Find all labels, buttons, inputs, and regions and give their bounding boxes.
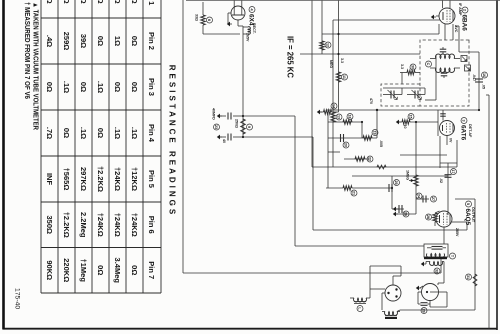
svg-text:0Ω: 0Ω — [62, 128, 71, 138]
wire screen grid — [452, 221, 467, 223]
svg-text:25: 25 — [394, 180, 398, 184]
wire B+ rail 3 vertical — [183, 272, 441, 274]
T3 secondary coil L3 — [430, 262, 443, 266]
pin leads of V2 to page edge — [449, 0, 451, 8]
coupling capacitor C8 — [445, 174, 452, 176]
wire B+ rail 1 to output transformer — [295, 245, 424, 247]
svg-text:259Ω: 259Ω — [62, 32, 71, 51]
ground for T3 secondary — [421, 262, 424, 267]
svg-text:†24KΩ: †24KΩ — [130, 213, 139, 237]
capacitor C11 with ground — [392, 208, 404, 210]
wire AF node line — [361, 122, 363, 138]
T2 resonating capacitor C3 — [441, 72, 448, 74]
resistor R17 in speaker feed — [473, 274, 477, 286]
svg-text:3.3: 3.3 — [340, 58, 344, 63]
svg-text:0Ω: 0Ω — [130, 265, 139, 275]
wire plate to output transformer — [443, 227, 445, 244]
svg-text:† MEASURED FROM PIN 7 OF V6: † MEASURED FROM PIN 7 OF V6 — [23, 2, 32, 99]
resistor R6 on return line — [331, 112, 335, 122]
wire stub below V3 — [439, 136, 441, 168]
svg-text:17: 17 — [451, 169, 455, 173]
svg-text:28: 28 — [426, 215, 430, 219]
svg-text:▲ TAKEN WITH VACUUM TUBE VOLTM: ▲ TAKEN WITH VACUUM TUBE VOLTMETER — [32, 2, 41, 131]
wire speaker feed line — [474, 199, 476, 310]
svg-text:10: 10 — [403, 125, 407, 129]
svg-text:22: 22 — [368, 157, 372, 161]
voice coil L4 — [385, 312, 398, 316]
T2 primary coil L1 — [435, 54, 454, 58]
output transformer T3 frame — [424, 244, 448, 257]
ref circle R2 — [247, 124, 253, 130]
wire audio coupling — [447, 163, 449, 215]
svg-text:40MFD: 40MFD — [212, 108, 216, 120]
wire V2 plate bypass — [458, 26, 460, 52]
wire volume line — [415, 122, 417, 214]
svg-text:.005: .005 — [379, 140, 383, 147]
capacitor C9 — [343, 134, 345, 142]
svg-text:9Ω: 9Ω — [62, 0, 71, 4]
ref circle R4 — [342, 74, 348, 80]
ref circle R5 — [325, 42, 331, 48]
wire secondary bottom to ground — [426, 261, 430, 263]
wire secondary to speaker — [438, 282, 444, 284]
resistor R4 AVC — [336, 72, 340, 82]
svg-text:6BA6: 6BA6 — [461, 15, 468, 32]
resistor R11 on vertical line — [352, 187, 392, 189]
wire can to AVC bus — [425, 99, 436, 101]
wire x176 vertical — [352, 175, 448, 177]
resistor R9 — [343, 120, 352, 124]
svg-text:0V: 0V — [449, 138, 453, 143]
L4 core bars — [385, 315, 397, 317]
T2 slug adjust second — [465, 65, 471, 71]
svg-text:RECT.: RECT. — [252, 23, 256, 34]
svg-text:IF AMP: IF AMP — [458, 3, 462, 16]
svg-text:0Ω: 0Ω — [45, 0, 54, 4]
svg-text:†565Ω: †565Ω — [62, 168, 71, 191]
svg-text:.4Ω: .4Ω — [45, 35, 54, 47]
svg-text:Pin 2: Pin 2 — [147, 32, 156, 50]
wire speaker feed drop — [455, 198, 475, 200]
wiper arrow of R13 — [409, 180, 413, 182]
wire stub — [328, 151, 340, 153]
svg-text:5: 5 — [466, 203, 470, 205]
svg-text:0Ω: 0Ω — [96, 128, 105, 138]
resistor R15 below IF can — [415, 72, 420, 74]
wire secondary top — [442, 261, 444, 263]
svg-text:†24KΩ: †24KΩ — [113, 167, 122, 191]
wire AVC bus into can — [459, 51, 479, 53]
svg-text:21: 21 — [352, 191, 356, 195]
svg-text:4: 4 — [250, 8, 254, 11]
svg-text:C: C — [426, 63, 430, 66]
L5 core bars — [354, 301, 366, 303]
svg-text:29: 29 — [422, 308, 426, 312]
diode load wire — [437, 122, 439, 136]
IF amplifier tube V2 6BA6 — [439, 8, 455, 24]
ground for C1A — [217, 114, 220, 119]
tube socket circle X1 — [385, 285, 401, 301]
svg-text:†2.2KΩ: †2.2KΩ — [96, 166, 105, 192]
filter capacitor C1A electrolytic — [233, 115, 243, 117]
svg-text:0Ω: 0Ω — [79, 82, 88, 92]
wire loop antenna along top — [488, 95, 490, 329]
trimmer capacitor C5 — [393, 91, 395, 99]
svg-text:6AQ5: 6AQ5 — [464, 209, 471, 226]
svg-text:0Ω: 0Ω — [79, 0, 88, 4]
output tube V5 6AQ5 — [436, 211, 452, 227]
ref circle R8 — [408, 114, 414, 120]
oscillator coil L5 — [354, 298, 367, 302]
junction dots — [242, 115, 244, 117]
coupling capacitor C10 — [391, 176, 393, 209]
svg-text:†1Meg: †1Meg — [79, 259, 88, 283]
wire X1 loop — [400, 266, 402, 276]
svg-text:0Ω: 0Ω — [130, 36, 139, 46]
ground for C11 — [393, 207, 396, 212]
svg-text:0Ω: 0Ω — [96, 0, 105, 4]
wire B+ rail 2 vertical — [243, 136, 313, 138]
svg-text:RESISTANCE READINGS: RESISTANCE READINGS — [168, 65, 177, 217]
svg-text:0Ω: 0Ω — [130, 82, 139, 92]
wire speaker feed to voice coil — [400, 309, 475, 311]
ref circle C12 — [431, 196, 437, 202]
ref circle L5 — [357, 306, 363, 312]
svg-text:Pin 6: Pin 6 — [147, 216, 156, 234]
wire detector line to AF network — [376, 110, 378, 138]
svg-text:.1Ω: .1Ω — [96, 81, 105, 93]
ref circle C14 — [421, 308, 427, 314]
svg-text:†24KΩ: †24KΩ — [113, 213, 122, 237]
svg-text:n 1: n 1 — [147, 0, 156, 5]
svg-text:.05: .05 — [482, 84, 486, 89]
ref circle R12 — [367, 156, 373, 162]
svg-text:3: 3 — [462, 119, 466, 121]
svg-text:32: 32 — [435, 269, 439, 273]
svg-text:0Ω: 0Ω — [113, 0, 122, 4]
svg-text:Pin 5: Pin 5 — [147, 170, 156, 188]
svg-text:†2.2KΩ: †2.2KΩ — [62, 212, 71, 238]
svg-text:1Ω: 1Ω — [113, 36, 122, 46]
T2 resonating capacitor C2 — [440, 48, 447, 50]
wire AVC line — [338, 0, 340, 112]
resistor R5 — [320, 41, 324, 50]
ref circle C6 — [482, 72, 488, 78]
volume control R13 potentiometer — [414, 175, 418, 186]
svg-text:33Ω: 33Ω — [195, 14, 199, 21]
svg-text:15: 15 — [409, 114, 413, 118]
trimmer can extension (dashed) — [381, 84, 420, 106]
filter resistor R2 — [241, 119, 245, 134]
T3 core laminations — [424, 257, 447, 259]
svg-text:175-40: 175-40 — [14, 288, 21, 309]
wire trimmer bus — [383, 87, 425, 89]
wire rail 3 to output transformer — [440, 258, 442, 273]
capacitor C14 at P1 — [418, 291, 422, 293]
svg-text:.02: .02 — [439, 178, 443, 183]
svg-text:39Ω: 39Ω — [79, 34, 88, 48]
wire volume to ground — [396, 213, 416, 215]
wire V2 plate to IF transformer — [452, 24, 454, 40]
wire AVC vertical — [300, 53, 420, 55]
svg-text:11: 11 — [342, 75, 346, 79]
svg-text:.1Ω: .1Ω — [130, 127, 139, 139]
ref circle R7 — [331, 103, 337, 109]
trimmer capacitor C4 — [417, 91, 419, 99]
ground cluster resistor R7 — [332, 111, 339, 113]
grid capacitor C7 — [442, 110, 444, 121]
wire R15 to trimmer bus — [401, 73, 403, 85]
wire AVC branch — [321, 0, 323, 54]
svg-text:0Ω: 0Ω — [130, 0, 139, 4]
speaker field/plug circle P1 — [422, 284, 439, 301]
ref circle R14 — [426, 214, 432, 220]
filter capacitor C1B electrolytic — [233, 136, 243, 138]
svg-text:†12KΩ: †12KΩ — [130, 167, 139, 191]
junction dot ladder — [337, 33, 339, 35]
detector tube V3 6AT6 — [440, 121, 455, 136]
svg-text:8: 8 — [207, 19, 211, 21]
svg-text:MEG: MEG — [329, 60, 333, 68]
coupling capacitor C6 on AVC bus — [475, 78, 483, 80]
wire AVC bus top — [478, 52, 480, 110]
wire return line 2 — [332, 20, 334, 167]
ref circle C8 — [451, 169, 457, 175]
T2 slug adjust top — [461, 56, 467, 62]
svg-text:.7Ω: .7Ω — [45, 127, 54, 139]
resistance readings table grid — [41, 0, 161, 293]
ref circle C1 — [214, 124, 220, 130]
ground for R8 — [399, 121, 402, 123]
svg-text:2: 2 — [463, 9, 467, 11]
svg-text:.1Ω: .1Ω — [79, 127, 88, 139]
svg-text:0Ω: 0Ω — [45, 82, 54, 92]
svg-text:20: 20 — [344, 143, 348, 147]
wire return rail vertical — [312, 166, 457, 168]
resistor R16 on return rail — [377, 165, 386, 169]
svg-text:.1Ω: .1Ω — [113, 127, 122, 139]
wire X1 left — [392, 276, 394, 285]
ref circle T3 — [450, 253, 456, 259]
wire AF vertical 1 — [328, 121, 362, 123]
wire junction node to V3 grid — [376, 109, 378, 111]
svg-text:23: 23 — [214, 125, 218, 129]
svg-text:DET-AF: DET-AF — [468, 124, 472, 138]
svg-text:1MEG: 1MEG — [406, 170, 410, 180]
svg-text:12: 12 — [326, 43, 330, 47]
wire B+ rail 2 to screen grid — [313, 229, 467, 231]
rectifier tube V4 6X4 — [231, 6, 245, 20]
wire long return line — [311, 0, 313, 167]
svg-text:IF = 265 KC: IF = 265 KC — [286, 36, 296, 78]
svg-text:.1Ω: .1Ω — [62, 81, 71, 93]
ref circle C11 — [403, 211, 409, 217]
resistor R12 — [355, 157, 365, 161]
wire L5 links — [369, 289, 371, 298]
svg-text:T: T — [450, 255, 454, 258]
svg-text:2.2Meg: 2.2Meg — [79, 212, 88, 238]
wire V3 plate line — [400, 154, 447, 156]
svg-text:†24KΩ: †24KΩ — [96, 213, 105, 237]
wire AF bottom line — [327, 112, 329, 188]
wire inside can — [435, 55, 437, 100]
wire — [203, 33, 240, 35]
svg-text:INF: INF — [45, 173, 54, 186]
wire V3 diode return — [456, 140, 458, 167]
ref circle R13 — [416, 193, 422, 199]
svg-text:Pin 4: Pin 4 — [147, 124, 156, 143]
wire B+ rail 3 horizontal above table — [182, 0, 184, 273]
svg-text:250Ω: 250Ω — [235, 119, 239, 128]
T2 secondary coil L2 — [435, 68, 454, 72]
wire cathode ladder of V2 — [438, 24, 440, 34]
heater ground of V4 — [228, 12, 231, 14]
svg-text:OUTPUT: OUTPUT — [471, 207, 475, 223]
wire P1 to rail — [429, 301, 431, 308]
fuse link on B+ — [248, 27, 250, 35]
wire loop antenna drop — [486, 94, 489, 96]
IF transformer T2 shield can (dashed) — [420, 40, 469, 106]
wire B+ rail 2 horizontal — [312, 137, 314, 230]
svg-text:16: 16 — [482, 73, 486, 77]
svg-text:3.4Meg: 3.4Meg — [113, 258, 122, 284]
svg-text:0Ω: 0Ω — [96, 265, 105, 275]
ground for volume — [393, 212, 396, 217]
svg-text:30: 30 — [411, 65, 415, 69]
ref circle R11 — [351, 190, 357, 196]
cathode resistor R14 — [435, 211, 440, 213]
ref circle R17 — [466, 274, 472, 280]
wire B+ rail 1 vertical — [243, 115, 295, 117]
wire AF vertical 2 — [328, 137, 377, 139]
tube label V5 6AQ5 — [466, 201, 472, 207]
svg-text:27: 27 — [431, 197, 435, 201]
ref circle C9 — [343, 142, 349, 148]
svg-text:Pin 3: Pin 3 — [147, 78, 156, 96]
wire V3 stub — [446, 136, 448, 146]
wire AF line to volume bottom — [344, 158, 369, 160]
ref circle R1 — [207, 17, 213, 23]
T3 primary coil L6 — [426, 254, 444, 258]
svg-text:31: 31 — [466, 275, 470, 279]
svg-text:9: 9 — [247, 126, 251, 128]
output coil L4 to speaker — [382, 292, 385, 294]
svg-text:Pin 7: Pin 7 — [147, 261, 156, 279]
wire detector feed line — [338, 109, 480, 111]
ref circle C10 — [394, 180, 400, 186]
ref circle T2 — [426, 61, 432, 67]
ref circle below T3 — [434, 268, 440, 274]
svg-text:470: 470 — [369, 98, 373, 104]
resistor R8 diode load — [402, 120, 410, 124]
svg-text:350Ω: 350Ω — [45, 215, 54, 234]
pin leads of V4 to page edge — [241, 0, 243, 8]
ref circle R10 — [372, 130, 378, 136]
wire grid of V2 down — [333, 19, 440, 21]
svg-text:18: 18 — [348, 114, 352, 118]
tube label V3 6AT6 — [461, 118, 467, 124]
wire B+ rail from cathode — [237, 20, 239, 26]
wire V2 screen to IF transformer — [444, 24, 446, 40]
ground stub for P1 — [420, 286, 423, 288]
ref circle R9 — [347, 114, 353, 120]
svg-text:13: 13 — [337, 115, 341, 119]
wire V3 to detector line — [437, 110, 439, 122]
crop edge line left — [186, 0, 500, 2]
svg-text:6AT6: 6AT6 — [460, 125, 467, 141]
T3 primary capacitor C13 — [432, 246, 443, 248]
ground for R7 — [317, 110, 320, 115]
ref circle R6 — [336, 114, 342, 120]
svg-text:L: L — [358, 307, 362, 310]
resistor R10 — [363, 136, 372, 140]
svg-text:19: 19 — [373, 130, 377, 134]
wire detector line lower end — [326, 109, 338, 111]
svg-text:90KΩ: 90KΩ — [45, 260, 54, 280]
ground for V2 cathode — [436, 15, 439, 17]
resistor R1 (surge resistor) — [202, 2, 204, 15]
ref circle R15 — [410, 64, 416, 70]
page border frame — [496, 0, 498, 330]
ground for C1B — [217, 135, 220, 140]
tube label V2 6BA6 — [462, 7, 468, 13]
svg-text:0Ω: 0Ω — [96, 36, 105, 46]
svg-text:3.3: 3.3 — [400, 64, 404, 69]
wire B+ rail 1 horizontal — [294, 116, 296, 246]
svg-text:.047: .047 — [472, 74, 476, 81]
svg-text:40: 40 — [222, 139, 226, 143]
svg-text:26: 26 — [404, 212, 408, 216]
svg-text:0Ω: 0Ω — [113, 82, 122, 92]
capacitor C12 near volume — [416, 198, 429, 200]
svg-text:220KΩ: 220KΩ — [62, 258, 71, 282]
svg-text:297KΩ: 297KΩ — [79, 167, 88, 191]
svg-text:285V: 285V — [455, 228, 459, 237]
wire B+ rail to filter resistor — [242, 116, 244, 137]
tube label V4 6X4 — [249, 7, 255, 13]
